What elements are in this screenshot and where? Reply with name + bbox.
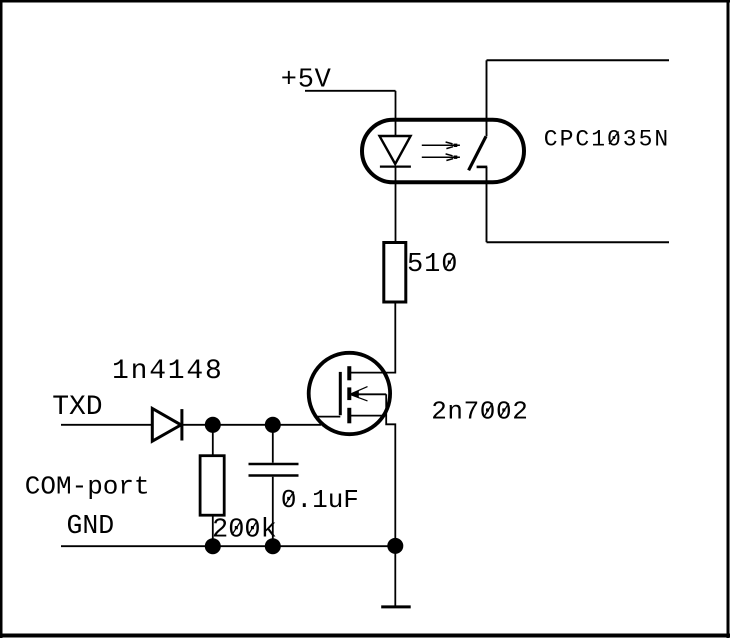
wire opto output bottom — [486, 167, 488, 242]
wire source step down — [386, 394, 395, 546]
MOSFET channel dash bottom — [347, 408, 351, 424]
node junction dot A (diode/resistor) — [205, 417, 221, 433]
slashed zero of 510 — [445, 256, 454, 270]
slashed zero of 200k second — [248, 521, 257, 535]
slashed zero of 2n7002 first — [484, 403, 493, 417]
svg-text:0.1uF: 0.1uF — [281, 485, 359, 515]
wire +5V horizontal — [305, 90, 396, 92]
node junction dot E (source to rail) — [387, 538, 403, 554]
ground symbol — [381, 605, 411, 608]
opto box bottom line — [487, 241, 670, 243]
opto switch diagonal — [469, 136, 486, 170]
svg-text:CPC1035N: CPC1035N — [544, 126, 670, 152]
ground rail wire — [61, 545, 395, 547]
svg-text:1n4148: 1n4148 — [112, 356, 224, 387]
resistor R1 510 body — [384, 243, 406, 303]
svg-text:GND: GND — [67, 511, 115, 541]
light arrow upper — [422, 142, 460, 149]
wire capacitor C1 to ground rail — [272, 477, 274, 546]
svg-text:TXD: TXD — [52, 392, 102, 423]
slashed zero of CPC1035N — [609, 132, 619, 145]
optocoupler U1 CPC1035N body — [362, 120, 524, 183]
wire node A down to resistor R2 — [212, 425, 214, 455]
wire +5V vertical to LED anode — [395, 91, 397, 136]
svg-text:2n7002: 2n7002 — [431, 396, 528, 426]
MOSFET body connection wire — [352, 393, 386, 395]
wire opto output top — [486, 60, 488, 136]
svg-text:510: 510 — [407, 250, 458, 280]
opto switch contact bar — [477, 166, 488, 169]
capacitor C1 top plate — [249, 463, 299, 466]
wire LED cathode to resistor R1 — [395, 167, 397, 241]
MOSFET channel dash middle — [347, 387, 351, 400]
border frame bottom — [0, 634, 730, 638]
MOSFET Q1 2n7002 circle — [309, 353, 390, 434]
LED cathode bar — [380, 165, 411, 167]
node junction dot D (C1 to rail) — [265, 538, 281, 554]
diode D1 cathode bar — [180, 409, 183, 440]
wire node B down to capacitor C1 — [272, 425, 274, 463]
resistor R2 200k body — [200, 456, 224, 516]
MOSFET channel dash top — [347, 366, 351, 380]
wire resistor R2 to ground rail — [212, 516, 214, 546]
MOSFET body arrow whisker lower — [351, 395, 368, 401]
node junction dot B (capacitor) — [265, 417, 281, 433]
MOSFET gate lead inside circle — [317, 416, 340, 418]
slashed zero of 0.1uF — [285, 492, 294, 506]
wire resistor R1 to MOSFET drain — [349, 303, 395, 372]
border frame top — [0, 0, 730, 3]
MOSFET gate bar — [339, 372, 342, 415]
op-to box top line — [487, 59, 670, 61]
border frame right — [727, 0, 730, 638]
slashed zero of 2n7002 second — [500, 403, 509, 417]
MOSFET body arrow head — [351, 390, 359, 398]
MOSFET body arrow whisker upper — [351, 387, 368, 394]
svg-text:COM-port: COM-port — [25, 472, 150, 502]
slashed zero of 200k first — [232, 521, 241, 535]
border frame left — [0, 0, 3, 638]
light arrow lower — [422, 154, 460, 161]
capacitor C1 bottom plate — [249, 474, 299, 477]
node junction dot C (R2 to rail) — [205, 538, 221, 554]
wire diode to MOSFET gate — [182, 424, 321, 426]
wire TXD to diode — [61, 424, 152, 426]
wire to ground symbol — [394, 546, 396, 607]
diode D1 1n4148 triangle — [152, 409, 181, 442]
MOSFET source lead inside circle — [349, 415, 386, 417]
LED D2 triangle inside optocoupler — [380, 136, 411, 164]
